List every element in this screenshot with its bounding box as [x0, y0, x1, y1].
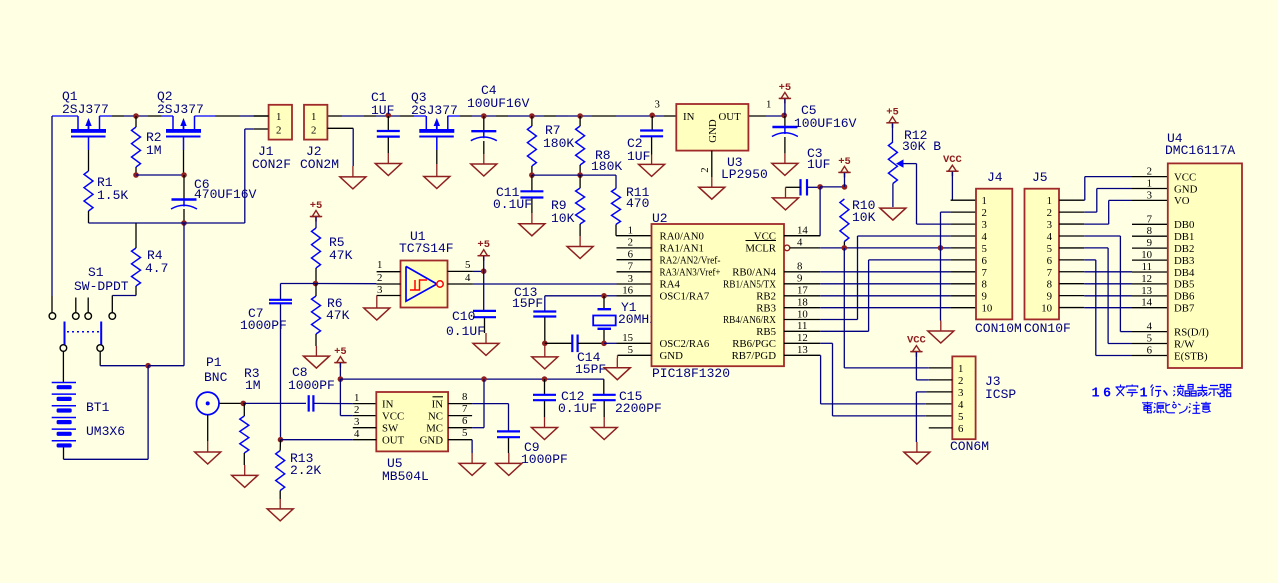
ground C9	[496, 438, 522, 475]
svg-text:7: 7	[982, 267, 988, 279]
wire J5 pin3 to U4 VO	[1084, 200, 1169, 224]
wire J5 pin1 to U4 VCC	[1084, 177, 1169, 201]
svg-text:+5: +5	[310, 200, 323, 212]
svg-text:RB3: RB3	[756, 302, 776, 314]
wire +5 down to C10	[483, 271, 485, 310]
node junction rail C12	[542, 376, 548, 382]
power VCC at J3 pin2	[907, 335, 952, 380]
svg-text:2200PF: 2200PF	[615, 401, 662, 416]
ground R9	[567, 224, 593, 259]
svg-text:GND: GND	[1174, 183, 1198, 195]
svg-text:DMC16117A: DMC16117A	[1165, 143, 1235, 158]
capacitor C13 15PF	[512, 285, 556, 317]
svg-text:DB0: DB0	[1174, 219, 1194, 231]
ground C4	[471, 141, 497, 176]
svg-text:J4: J4	[987, 170, 1003, 185]
svg-text:4: 4	[797, 237, 803, 249]
capacitor C1 1UF	[371, 90, 400, 137]
regulator U3 LP2950	[655, 99, 772, 183]
resistor R8 180K	[576, 116, 623, 174]
capacitor C4 100UF16V	[467, 83, 530, 141]
wire R7 to node	[531, 166, 533, 175]
svg-text:10: 10	[982, 303, 993, 315]
svg-text:2: 2	[354, 404, 359, 416]
ground R3	[232, 453, 258, 487]
node junction rail U5 branch	[481, 376, 487, 382]
wire node to C8	[243, 402, 306, 404]
ground Q3	[424, 164, 450, 189]
LCD module U4 DMC16117A	[1165, 131, 1242, 368]
node junction R5 R6	[313, 281, 319, 287]
resistor R9 10K	[551, 175, 585, 226]
wire R12 wiper to J4 pin3	[904, 164, 977, 225]
svg-text:5: 5	[1047, 243, 1052, 255]
svg-text:RA2/AN2/Vref-: RA2/AN2/Vref-	[660, 254, 721, 266]
pin 4 wire U5 OUT	[281, 439, 377, 441]
wire R11 to U2 pin1	[616, 224, 652, 235]
J5 right pin stubs	[1059, 200, 1084, 307]
wire RB0 to J4 pin7	[820, 271, 976, 273]
svg-text:9: 9	[1147, 237, 1152, 249]
connector J2 CON2M	[300, 105, 339, 172]
wire C3 left to ground	[786, 186, 801, 188]
wire +5 node link	[820, 186, 844, 188]
ground C1	[375, 138, 401, 176]
svg-text:1: 1	[276, 111, 281, 123]
resistor R11 470	[612, 185, 650, 224]
wire top rail left segment	[52, 115, 78, 117]
svg-text:RB7/PGD: RB7/PGD	[732, 350, 777, 362]
svg-text:3: 3	[958, 387, 963, 399]
svg-text:6: 6	[628, 249, 634, 261]
U4 pin numbers	[1141, 166, 1152, 357]
svg-text:2: 2	[982, 207, 987, 219]
ground C5	[772, 137, 798, 175]
svg-text:1: 1	[628, 225, 633, 237]
svg-text:5: 5	[1147, 333, 1152, 345]
ground J4 pin2	[928, 321, 954, 344]
pin 4 lead U1	[448, 272, 473, 284]
capacitor C11 0.1UF	[493, 175, 543, 212]
svg-text:IN: IN	[432, 398, 444, 410]
ground U5	[459, 453, 485, 475]
wire C7 to C8 node	[280, 304, 282, 439]
svg-text:GND: GND	[660, 350, 684, 362]
inverter U1 TC7S14F	[399, 229, 454, 308]
svg-text:6: 6	[982, 255, 988, 267]
svg-text:RB2: RB2	[756, 290, 776, 302]
wire R8 to node	[579, 165, 581, 175]
ground C12	[532, 401, 558, 439]
svg-text:15PF: 15PF	[512, 296, 543, 311]
svg-text:15PF: 15PF	[575, 362, 606, 377]
svg-text:3: 3	[628, 273, 633, 285]
pin 4 MCLR bubble	[784, 237, 820, 251]
wire C3 right to +5 node	[807, 186, 820, 188]
svg-text:9: 9	[982, 291, 987, 303]
svg-text:OUT: OUT	[382, 434, 405, 446]
wire rail to R2	[135, 116, 137, 127]
svg-text:UM3X6: UM3X6	[86, 424, 125, 439]
wire Q1 gate to R1	[88, 150, 90, 171]
node junction C4 top	[481, 113, 487, 119]
svg-text:LP2950: LP2950	[721, 167, 768, 182]
wire C7 top corner	[280, 284, 282, 300]
wire divider node to R11	[532, 175, 616, 188]
svg-text:1: 1	[311, 111, 316, 123]
wire J5 pin6 to U4 E	[1084, 260, 1169, 356]
svg-text:+5: +5	[334, 346, 347, 358]
svg-text:RB1/AN5/TX: RB1/AN5/TX	[723, 278, 776, 290]
ground R6	[303, 334, 329, 368]
node junction R8 top	[577, 113, 583, 119]
svg-text:MB504L: MB504L	[382, 469, 429, 484]
svg-text:6: 6	[462, 415, 468, 427]
svg-text:RS(D/I): RS(D/I)	[1174, 326, 1209, 338]
svg-text:0.1UF: 0.1UF	[493, 197, 532, 212]
svg-text:2SJ377: 2SJ377	[411, 103, 458, 118]
wire U5 pin6 to +5 rail	[472, 379, 484, 428]
pin 1 stub U1	[377, 259, 401, 272]
svg-text:180K: 180K	[543, 136, 574, 151]
wire RB4 to J4 pin4	[820, 236, 976, 320]
node junction C7 R13 U5pin4	[278, 437, 284, 443]
svg-text:3: 3	[354, 416, 359, 428]
svg-text:0.1UF: 0.1UF	[446, 324, 485, 339]
node junction Q2 gate rail	[133, 113, 139, 119]
resistor R10 10K	[840, 198, 876, 242]
svg-text:RB0/AN4: RB0/AN4	[732, 266, 776, 278]
svg-text:2: 2	[958, 375, 963, 387]
node junction +5 U1 pin5	[481, 268, 487, 274]
node junction C6 top	[181, 172, 187, 178]
svg-text:4: 4	[354, 428, 360, 440]
svg-text:10: 10	[1041, 303, 1052, 315]
svg-text:OSC2/RA6: OSC2/RA6	[660, 338, 710, 350]
svg-text:DB4: DB4	[1174, 267, 1195, 279]
svg-text:GND: GND	[420, 434, 444, 446]
svg-text:RA1/AN1: RA1/AN1	[660, 243, 704, 255]
capacitor C7 1000PF	[240, 300, 292, 333]
svg-text:VO: VO	[1174, 195, 1190, 207]
capacitor C3 1UF	[801, 146, 831, 196]
resistor R2 1M	[132, 127, 162, 167]
transistor Q1 2SJ377	[71, 116, 106, 150]
svg-text:SW-DPDT: SW-DPDT	[74, 279, 129, 294]
ground J2 pin2	[340, 166, 366, 189]
svg-text:2: 2	[311, 125, 316, 137]
svg-text:DB3: DB3	[1174, 255, 1194, 267]
svg-text:CON10F: CON10F	[1024, 321, 1071, 336]
svg-text:47K: 47K	[326, 308, 350, 323]
node junction C1 top	[386, 113, 392, 119]
svg-text:4: 4	[465, 272, 471, 284]
svg-text:1: 1	[354, 392, 359, 404]
wire U3 GND pin2	[699, 151, 712, 177]
label Q1	[62, 89, 109, 117]
node junction C3 / U2 VCC riser	[817, 184, 823, 190]
svg-text:1: 1	[1140, 387, 1148, 402]
svg-text:1: 1	[1047, 195, 1052, 207]
svg-text:PIC18F1320: PIC18F1320	[652, 366, 730, 381]
wire bottom rail to J1 pin2	[89, 129, 269, 223]
wire J4 pin2 to ground	[941, 212, 977, 320]
wire R5 to node	[315, 268, 317, 284]
svg-text:RA3/AN3/Vref+: RA3/AN3/Vref+	[660, 266, 721, 278]
svg-text:ICSP: ICSP	[985, 387, 1016, 402]
wire RB1 to J4 pin8	[820, 283, 976, 285]
svg-text:IN: IN	[382, 398, 394, 410]
svg-text:4: 4	[1147, 321, 1153, 333]
svg-text:J5: J5	[1032, 170, 1048, 185]
svg-text:C10: C10	[452, 309, 475, 324]
svg-text:5: 5	[958, 411, 963, 423]
svg-text:1: 1	[958, 363, 963, 375]
node junction R7 top	[529, 113, 535, 119]
svg-text:7: 7	[628, 261, 634, 273]
svg-text:1.5K: 1.5K	[97, 188, 128, 203]
svg-text:DB6: DB6	[1174, 291, 1195, 303]
svg-text:7: 7	[1147, 213, 1153, 225]
transistor Q3 2SJ377	[419, 116, 454, 150]
node junction R2 bottom	[133, 172, 139, 178]
ground P1	[195, 415, 221, 464]
ground C11	[519, 198, 545, 235]
U2 left pin numbers	[622, 225, 633, 357]
capacitor C6 470UF16V	[171, 177, 257, 209]
svg-text:2.2K: 2.2K	[290, 463, 321, 478]
node junction C13 C14	[542, 341, 548, 347]
svg-text:CON2F: CON2F	[252, 157, 291, 172]
svg-text:6: 6	[1047, 255, 1053, 267]
wire J5 pin5 to U4 R/W	[1084, 248, 1169, 344]
connector J4 CON10M	[975, 170, 1022, 336]
resistor R7 180K	[527, 116, 574, 166]
capacitor C2 1UF	[627, 116, 663, 164]
svg-text:8: 8	[982, 279, 987, 291]
svg-text:1: 1	[766, 99, 771, 111]
svg-text:S1: S1	[88, 265, 104, 280]
svg-text:4: 4	[1047, 231, 1053, 243]
U2 right pin leads	[784, 225, 820, 357]
svg-text:OUT: OUT	[718, 111, 741, 123]
svg-text:RB6/PGC: RB6/PGC	[732, 338, 776, 350]
svg-text:11: 11	[797, 320, 807, 332]
svg-text:1UF: 1UF	[807, 157, 830, 172]
svg-text:16: 16	[622, 285, 633, 297]
ground C2	[639, 137, 665, 176]
svg-text:1: 1	[1147, 178, 1152, 190]
svg-text:47K: 47K	[329, 248, 353, 263]
node junction MCLR J4	[938, 245, 944, 251]
svg-text:2SJ377: 2SJ377	[62, 102, 109, 117]
svg-text:0.1UF: 0.1UF	[558, 401, 597, 416]
svg-text:VCC: VCC	[1174, 171, 1196, 183]
svg-text:8: 8	[462, 391, 467, 403]
svg-text:6: 6	[1103, 387, 1111, 402]
wire RB6 to J3 pin5	[820, 343, 952, 416]
svg-text:7: 7	[1047, 267, 1053, 279]
svg-text:8: 8	[797, 261, 802, 273]
wire MCLR net	[820, 247, 976, 249]
svg-text:P1: P1	[206, 355, 222, 370]
pin 5 lead U1	[448, 259, 484, 271]
svg-text:SW: SW	[382, 422, 399, 434]
svg-text:14: 14	[1141, 297, 1152, 309]
svg-text:TC7S14F: TC7S14F	[399, 241, 454, 256]
svg-text:+5: +5	[477, 239, 490, 251]
switch S1 SW-DPDT	[49, 265, 129, 351]
ground C3	[773, 187, 799, 210]
svg-text:MCLR: MCLR	[745, 243, 776, 255]
svg-text:1000PF: 1000PF	[288, 378, 335, 393]
wire Q2-J1 segment	[195, 115, 269, 117]
svg-text:180K: 180K	[591, 159, 622, 174]
svg-text:4: 4	[982, 231, 988, 243]
wire J5 pin4 to U4 RS	[1084, 236, 1169, 332]
node junction bottom rail C6	[181, 220, 187, 226]
capacitor C15 2200PF	[593, 379, 662, 416]
U5 right pin leads	[448, 391, 472, 440]
svg-text:2SJ377: 2SJ377	[157, 102, 204, 117]
wire S1 pole right to node	[100, 352, 148, 366]
svg-text:5: 5	[628, 344, 633, 356]
svg-text:14: 14	[797, 225, 808, 237]
svg-text:CON6M: CON6M	[950, 439, 989, 454]
svg-text:5: 5	[462, 427, 467, 439]
svg-text:2: 2	[377, 272, 382, 284]
svg-text:CON2M: CON2M	[300, 157, 339, 172]
wire J5 pin8 to U4 DB5	[1084, 283, 1169, 285]
pin 3 stub U5	[353, 427, 377, 429]
svg-text:10: 10	[797, 308, 808, 320]
wire MCLR to J3 pin1	[844, 248, 952, 368]
capacitor C8 1000PF	[288, 365, 335, 412]
svg-text:3: 3	[1147, 189, 1152, 201]
microcontroller U2 PIC18F1320	[652, 211, 785, 381]
ground R13	[267, 491, 293, 521]
svg-text:R/W: R/W	[1174, 338, 1195, 350]
svg-text:VCC: VCC	[382, 410, 404, 422]
resistor R5 47K	[312, 228, 353, 268]
power VCC at J4	[943, 154, 976, 200]
wire S1 pole left to battery	[62, 352, 64, 383]
svg-text:CON10M: CON10M	[975, 321, 1022, 336]
node junction R8 bottom	[577, 172, 583, 178]
wire J5 pin9 to U4 DB6	[1084, 295, 1169, 297]
power +5 at R12	[886, 106, 899, 142]
wire node to C6	[183, 175, 185, 199]
wire P1 to node	[219, 402, 243, 404]
svg-text:U2: U2	[652, 211, 668, 226]
svg-text:+5: +5	[886, 106, 899, 118]
resistor R3 1M	[240, 366, 261, 453]
wire J5 pin10 to U4 DB7	[1084, 307, 1169, 309]
svg-text:NC: NC	[428, 410, 443, 422]
svg-text:DB2: DB2	[1174, 243, 1194, 255]
svg-text:10K: 10K	[551, 211, 575, 226]
svg-text:RA0/AN0: RA0/AN0	[660, 230, 704, 242]
svg-text:12: 12	[797, 332, 808, 344]
capacitor C5 100UF16V	[772, 103, 857, 137]
svg-text:1000PF: 1000PF	[240, 318, 287, 333]
svg-text:1: 1	[1092, 387, 1100, 402]
J3 pin6 stub	[929, 427, 953, 429]
svg-text:100UF16V: 100UF16V	[794, 116, 857, 131]
node junction +5 R10 top	[842, 184, 848, 190]
wire battery bottom loop	[64, 366, 149, 460]
power +5 at C5	[779, 82, 792, 116]
resistor R4 4.7	[132, 248, 169, 286]
node junction C2 / U3 IN	[649, 113, 655, 119]
svg-text:VCC: VCC	[907, 335, 927, 347]
connector J1 CON2F	[252, 105, 292, 172]
wire U5 pin8 to C9	[472, 404, 508, 431]
svg-text:VCC: VCC	[943, 154, 963, 166]
wire RB3 to J4 pin10	[820, 307, 976, 309]
potentiometer R12 30K B	[888, 128, 941, 184]
wire Q1-Q2 segment with junction	[100, 115, 174, 117]
capacitor C10 0.1UF	[446, 309, 496, 339]
resistor R1 1.5K	[84, 171, 128, 211]
node junction P1 R3	[241, 401, 247, 407]
wire left vertical from rail to switch	[51, 116, 53, 312]
wire RB5 to J4 pin6	[820, 260, 976, 331]
svg-text:17: 17	[797, 285, 808, 297]
svg-text:BNC: BNC	[204, 370, 228, 385]
wire C13 corner	[544, 296, 546, 311]
ground C10	[473, 318, 499, 355]
svg-text:10: 10	[1141, 249, 1152, 261]
wire U3 OUT to C5 node	[748, 115, 784, 117]
ground R12	[880, 208, 906, 220]
svg-text:18: 18	[797, 297, 808, 309]
wire C8 to U5 pin1	[313, 402, 376, 404]
svg-text:6: 6	[958, 423, 964, 435]
wire RB2 to J4 pin9	[820, 295, 976, 297]
node junction Y1 bottom	[601, 341, 607, 347]
node junction R7 bottom	[529, 172, 535, 178]
connector P1 BNC	[196, 355, 227, 415]
wire Q3 gate to ground	[436, 150, 438, 164]
svg-text:1UF: 1UF	[371, 103, 394, 118]
svg-text:10K: 10K	[852, 210, 876, 225]
wire node to C6 branch	[148, 223, 184, 366]
connector J5 CON10F	[1024, 170, 1071, 336]
svg-text:1: 1	[982, 195, 987, 207]
svg-text:3: 3	[655, 99, 660, 111]
power +5 at R10	[838, 156, 851, 187]
svg-text:RA4: RA4	[660, 279, 681, 291]
wire VCC riser to U2 pin14	[819, 187, 821, 236]
svg-text:8: 8	[1147, 225, 1152, 237]
svg-text:7: 7	[462, 403, 468, 415]
wire OSC1 net	[545, 295, 652, 297]
wire J3 pin3 to ground	[916, 392, 952, 442]
svg-text:3: 3	[377, 284, 382, 296]
svg-text:BT1: BT1	[86, 400, 110, 415]
resistor R6 47K	[312, 284, 350, 335]
svg-text:RB4/AN6/RX: RB4/AN6/RX	[723, 314, 776, 326]
svg-text:2: 2	[276, 125, 281, 137]
svg-text:9: 9	[797, 273, 802, 285]
ground C13	[532, 343, 558, 369]
wire J2 pin2 to ground	[327, 128, 353, 166]
svg-text:470UF16V: 470UF16V	[194, 187, 257, 202]
svg-text:1UF: 1UF	[627, 149, 650, 164]
svg-text:8: 8	[1047, 279, 1052, 291]
svg-text:1: 1	[377, 259, 382, 271]
